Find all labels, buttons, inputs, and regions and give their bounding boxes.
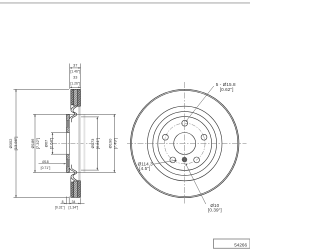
Ø18 leader [39,163,67,165]
front view labels [138,82,236,213]
dim Ø186 left [33,114,116,172]
leaders front view [154,86,214,204]
svg-text:34: 34 [72,200,76,204]
lug holes [182,120,188,126]
lug hole in flange (top) [67,120,70,127]
svg-text:[1.34"]: [1.34"] [69,206,79,210]
hat flange plate [67,114,70,132]
svg-text:[0.31"]: [0.31"] [55,206,65,210]
web S-curve bottom [70,177,72,182]
outer circle pair [131,89,239,197]
svg-text:[7.32"]: [7.32"] [35,138,40,149]
leader Ø114.3 [154,160,177,164]
front view centerlines [127,82,247,205]
svg-text:[0.39"]: [0.39"] [208,208,222,213]
svg-text:[13.86"]: [13.86"] [13,137,18,151]
web S-curve top [70,105,72,110]
svg-text:33: 33 [73,76,77,80]
friction ring plates hatched [71,89,81,197]
svg-text:[2.64"]: [2.64"] [48,138,53,149]
lug hole in flange (bottom) [67,160,70,167]
vent channel (lighter) [74,89,78,197]
phantom hub (light) [78,107,80,181]
section axis centerline [52,142,96,144]
svg-text:[4.5"]: [4.5"] [139,166,150,171]
svg-text:Ø18: Ø18 [42,160,49,164]
inner edge circles [147,106,222,181]
dim Ø173 right [81,117,99,170]
svg-text:[0.71"]: [0.71"] [41,166,51,170]
bore lines [67,133,70,155]
svg-text:[7.49"]: [7.49"] [112,138,117,149]
svg-text:[1.26"]: [1.26"] [70,82,80,86]
set screw [182,157,187,163]
dim Ø352 left [14,89,70,197]
svg-text:37: 37 [73,64,77,68]
bottom dims [61,197,85,205]
ring outer edges top [71,89,81,106]
bore [174,133,196,155]
svg-text:8: 8 [62,200,64,204]
svg-text:54266: 54266 [234,243,247,248]
page top border [0,2,250,3]
svg-text:[0.62"]: [0.62"] [220,87,234,92]
bolt circle (dash-dot) [164,123,205,164]
title block box [214,239,251,248]
leader Ø10 [186,164,206,204]
ring outer edges bottom [71,181,81,198]
dim Ø67 bore [51,133,66,155]
section dimension texts [8,64,118,210]
svg-text:[6.81"]: [6.81"] [95,138,100,149]
dim Ø190 right [114,114,116,172]
svg-text:[1.46"]: [1.46"] [70,69,80,73]
leader 5-Ø15.8 [186,86,214,121]
